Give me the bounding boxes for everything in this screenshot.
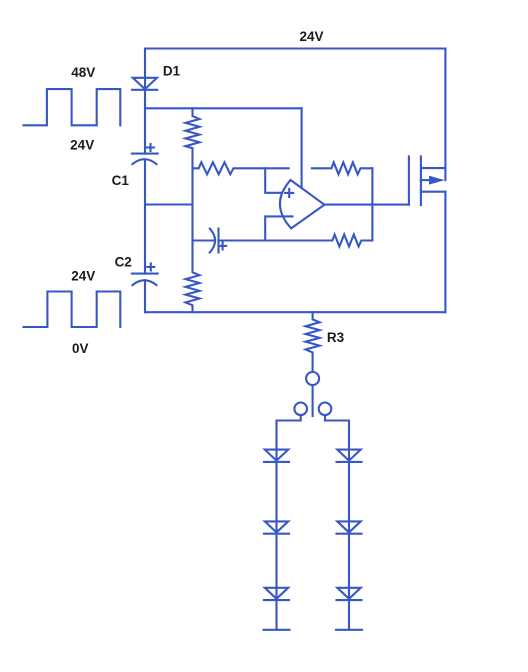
op-amp U1 [280, 180, 324, 228]
wire op-amp V+ supply drop [301, 108, 303, 187]
wire ladder mid vertical [191, 168, 193, 240]
wire + input step [265, 168, 281, 193]
resistor R5 (top feedback) [312, 162, 373, 174]
svg-text:24V: 24V [70, 138, 94, 153]
svg-text:48V: 48V [71, 65, 95, 80]
svg-text:C2: C2 [115, 254, 132, 269]
transistor Q1 (MOSFET) [409, 156, 446, 205]
connector J2 (left jack circle) [294, 403, 307, 416]
resistor R1 (top vertical) [186, 108, 200, 168]
LED D6 (right chain 2) [337, 521, 362, 533]
wire - input step [265, 216, 282, 240]
waveform 48V/24V square wave [24, 89, 121, 125]
wire left rail top (rail through D1 to C1) [144, 49, 146, 154]
svg-text:0V: 0V [72, 341, 89, 356]
LED D2 (left chain 1) [264, 450, 289, 462]
resistor R6 (bottom feedback) [219, 235, 373, 247]
capacitor C1 [132, 144, 158, 164]
capacitor C3 [193, 229, 227, 253]
wire feedback vertical [371, 168, 373, 240]
svg-text:24V: 24V [71, 268, 95, 283]
svg-text:D1: D1 [163, 63, 181, 78]
wire bottom rail [145, 311, 445, 313]
wire left rail branch to R ladder [145, 203, 193, 205]
wire top 24V rail [145, 47, 445, 49]
wire right jack to right chain [325, 415, 349, 630]
wire right vertical upper (drain to rail) [444, 49, 446, 181]
LED D4 (left chain 3) [264, 588, 289, 600]
svg-text:R3: R3 [327, 330, 345, 345]
wire op-amp output to gate [324, 204, 409, 206]
wire left rail C2 to bottom rail [144, 280, 146, 312]
LED D5 (right chain 1) [337, 450, 362, 462]
wire plug tail [312, 385, 314, 416]
connector J3 (right jack circle) [319, 403, 332, 416]
resistor R3 [306, 312, 320, 372]
terminal left chain end bar [264, 629, 290, 631]
wire left rail C1 to C2 [144, 160, 146, 274]
resistor R2 (horizontal to +) [193, 162, 289, 174]
diode D1 [132, 78, 157, 90]
terminal right chain end bar [336, 629, 362, 631]
resistor R4 (bottom vertical) [186, 241, 200, 313]
LED D7 (right chain 3) [337, 588, 362, 600]
waveform 24V/0V square wave [24, 292, 121, 328]
svg-text:24V: 24V [299, 29, 323, 44]
LED D3 (left chain 2) [264, 521, 289, 533]
wire left jack to left chain [277, 415, 301, 630]
capacitor C2 [132, 263, 158, 285]
connector J1 (plug circle) [306, 372, 319, 385]
svg-text:C1: C1 [112, 173, 130, 188]
wire node A branch (left rail to op-amp supply) [145, 107, 302, 109]
wire right vertical lower (source to bottom rail) [444, 192, 446, 313]
